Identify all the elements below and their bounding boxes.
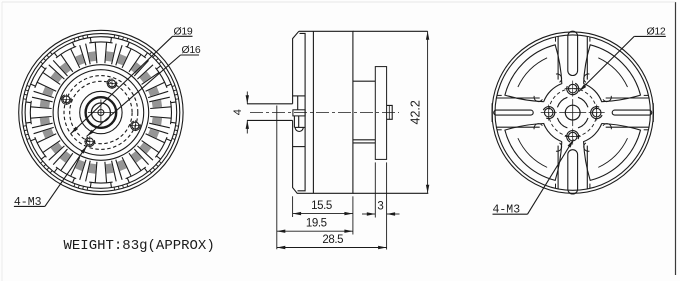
svg-text:42.2: 42.2 — [409, 100, 423, 124]
svg-text:WEIGHT:83g(APPROX): WEIGHT:83g(APPROX) — [64, 238, 215, 254]
svg-text:Ø12: Ø12 — [647, 26, 666, 38]
svg-text:Ø16: Ø16 — [182, 44, 201, 56]
svg-text:15.5: 15.5 — [311, 200, 332, 212]
svg-text:4-M3: 4-M3 — [493, 204, 521, 217]
svg-text:28.5: 28.5 — [322, 234, 343, 246]
svg-text:4: 4 — [232, 109, 244, 115]
svg-text:4-M3: 4-M3 — [14, 196, 42, 209]
svg-text:Ø19: Ø19 — [174, 26, 193, 38]
svg-text:3: 3 — [377, 200, 383, 212]
svg-text:19.5: 19.5 — [306, 218, 327, 230]
